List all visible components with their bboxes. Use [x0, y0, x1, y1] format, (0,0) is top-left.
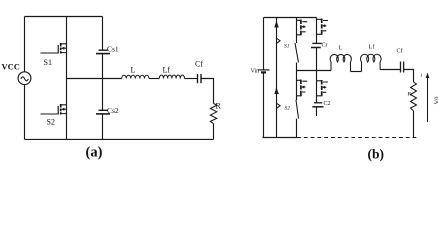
svg-text:VCC: VCC	[2, 62, 20, 72]
transistor S2	[58, 104, 66, 115]
diode D1 chevron	[277, 39, 280, 44]
diode glyph bottom	[317, 80, 329, 96]
wire down from R	[213, 124, 215, 140]
svg-text:Cf: Cf	[195, 60, 203, 69]
svg-text:Lf: Lf	[163, 66, 171, 75]
inductor Lf	[361, 54, 382, 71]
wire below R	[413, 111, 415, 138]
capacitor C2	[312, 103, 323, 107]
battery leg wire	[263, 18, 265, 138]
output arrow Vo	[426, 73, 438, 123]
svg-text:V0: V0	[434, 97, 438, 105]
top rail	[264, 17, 317, 19]
left vertical wire (VCC branch)	[24, 17, 26, 140]
svg-text:L: L	[131, 66, 136, 75]
inductor L1	[330, 54, 351, 71]
capacitor Cf	[198, 74, 202, 83]
svg-text:L: L	[339, 45, 343, 51]
inductor Lf	[159, 75, 184, 79]
inductor L	[122, 75, 149, 78]
wire between coils	[351, 71, 362, 73]
diode D2 arrow	[274, 87, 278, 94]
svg-text:S1: S1	[284, 44, 290, 50]
svg-text:S2: S2	[47, 118, 55, 127]
capacitor Cs1	[96, 50, 110, 53]
middle branch wire	[297, 70, 332, 72]
bottom rail solid	[263, 137, 298, 139]
middle branch wire	[67, 78, 122, 80]
wire	[185, 78, 198, 80]
gate wire S2	[41, 113, 59, 115]
svg-text:(b): (b)	[368, 147, 385, 162]
capacitor leg wire	[316, 18, 318, 117]
svg-text:S1: S1	[44, 58, 52, 67]
svg-text:R: R	[408, 92, 412, 98]
switch blade S1	[295, 43, 299, 63]
svg-text:Cr: Cr	[322, 43, 328, 49]
wire	[149, 78, 159, 80]
svg-text:Cs2: Cs2	[107, 106, 119, 115]
switch leg wire	[296, 18, 298, 138]
svg-text:S2: S2	[285, 106, 291, 112]
capacitor Cr	[311, 43, 322, 47]
resistor R	[210, 104, 217, 124]
svg-text:(a): (a)	[86, 145, 103, 161]
diode D2 chevron	[277, 104, 280, 109]
svg-text:Vin: Vin	[251, 69, 260, 75]
diode glyph top	[317, 19, 329, 35]
svg-text:C2: C2	[324, 101, 331, 107]
svg-text:R: R	[216, 102, 222, 111]
resistor R	[411, 82, 417, 111]
capacitor Cf	[401, 62, 404, 73]
transistor S1	[58, 43, 66, 54]
svg-text:Cs1: Cs1	[107, 45, 119, 54]
transistor glyph S2	[297, 80, 308, 97]
svg-text:Cf: Cf	[397, 48, 403, 55]
battery Vin	[258, 70, 270, 73]
transistor glyph S1	[297, 20, 308, 36]
switch blade S2	[296, 100, 299, 119]
capacitor leg vertical	[102, 17, 104, 140]
wire to right corner	[202, 79, 214, 104]
VCC source	[18, 72, 31, 85]
diode D1 arrow	[274, 21, 278, 28]
switch leg vertical	[66, 17, 68, 140]
wire to right corner	[404, 70, 414, 83]
diode leg wire	[276, 18, 278, 138]
bottom rail	[25, 138, 214, 140]
capacitor Cs2	[96, 110, 110, 114]
bottom rail dashed	[297, 137, 418, 139]
gate wire S1	[41, 52, 59, 54]
top rail	[25, 16, 103, 18]
svg-text:Lf: Lf	[369, 44, 375, 51]
wire to Cf	[380, 69, 400, 71]
